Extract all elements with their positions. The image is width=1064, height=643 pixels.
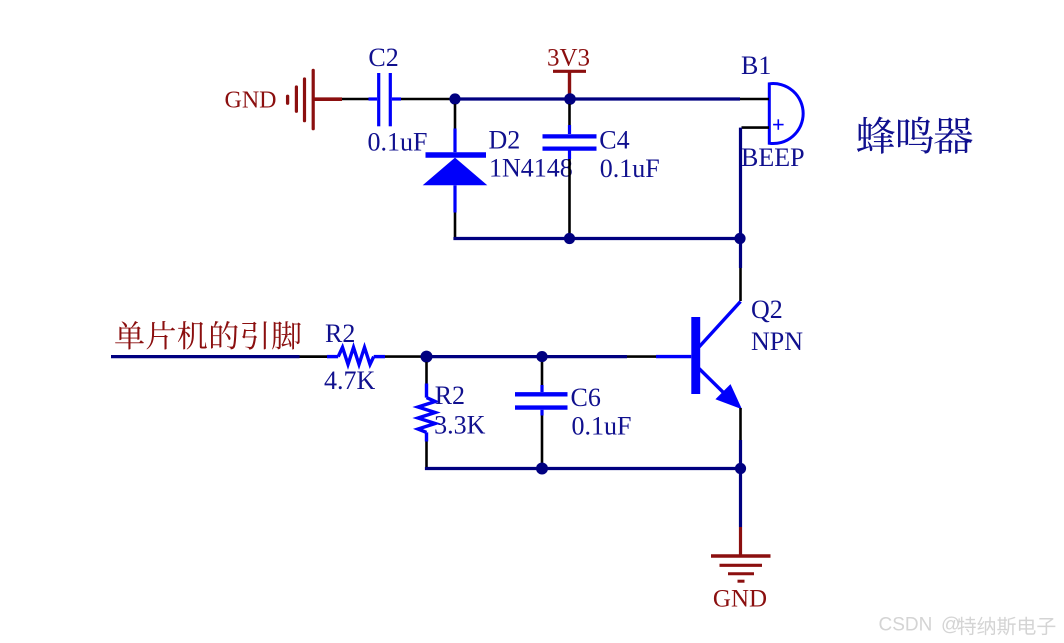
wire <box>401 98 450 101</box>
svg-text:3.3K: 3.3K <box>434 410 486 439</box>
resistor R2 3.3K <box>418 384 435 442</box>
svg-text:BEEP: BEEP <box>741 143 805 172</box>
svg-text:R2: R2 <box>325 319 355 348</box>
wire <box>568 104 571 125</box>
node junction (C6 top) <box>536 351 547 362</box>
wire base rail <box>111 355 300 358</box>
svg-text:Q2: Q2 <box>751 295 783 324</box>
wire mid rail <box>455 237 740 239</box>
wire <box>425 442 428 468</box>
svg-text:C6: C6 <box>571 383 601 412</box>
svg-text:3V3: 3V3 <box>547 45 590 72</box>
wire <box>425 362 428 384</box>
wire <box>739 268 742 301</box>
value 0.1uF (C6) <box>572 411 632 440</box>
svg-text:C2: C2 <box>368 43 398 72</box>
node junction (C4 bottom) <box>564 233 575 244</box>
ground GND (bottom) <box>711 556 771 613</box>
svg-text:GND: GND <box>713 586 767 613</box>
wire top rail <box>455 97 740 100</box>
label D2 <box>489 126 521 155</box>
text 蜂鸣器 (buzzer caption) <box>857 116 973 153</box>
text 单片机的引脚 (MCU pin label) <box>115 321 301 350</box>
wire to ground <box>739 469 742 528</box>
svg-text:0.1uF: 0.1uF <box>600 154 660 183</box>
svg-text:R2: R2 <box>435 381 465 410</box>
capacitor C2 <box>369 73 402 126</box>
svg-text:4.7K: 4.7K <box>324 366 376 395</box>
buzzer B1 <box>769 84 803 144</box>
label R2 (4.7K) <box>325 319 355 348</box>
ground GND (left power port) <box>225 70 343 128</box>
value 4.7K <box>324 366 376 395</box>
label R2 (3.3K) <box>435 381 465 410</box>
svg-text:CSDN: CSDN <box>879 615 933 636</box>
wire <box>454 104 457 129</box>
wire bottom rail <box>427 467 741 469</box>
svg-text:0.1uF: 0.1uF <box>368 128 428 157</box>
svg-text:C4: C4 <box>599 126 629 155</box>
transistor Q2 <box>691 302 742 410</box>
node junction (emitter/GND) <box>735 463 746 474</box>
node junction (collector rail) <box>734 233 745 244</box>
label B1 <box>741 51 771 80</box>
wire <box>739 408 742 440</box>
svg-text:NPN: NPN <box>751 327 803 356</box>
wire <box>427 355 628 358</box>
diode D2 <box>423 129 488 213</box>
svg-text:B1: B1 <box>741 51 771 80</box>
wire <box>739 440 742 469</box>
wire buzzer to collector <box>739 128 742 268</box>
wire <box>541 362 544 385</box>
value 1N4148 <box>489 154 573 183</box>
wire <box>385 355 421 358</box>
svg-text:D2: D2 <box>489 126 521 155</box>
label C2 <box>368 43 398 72</box>
power 3V3 <box>547 45 590 95</box>
value 0.1uF (C4) <box>600 154 660 183</box>
resistor R2 4.7K <box>327 347 385 364</box>
node junction (C2/D2) <box>449 93 460 104</box>
label NPN <box>751 327 803 356</box>
wire <box>454 213 457 238</box>
svg-text:@: @ <box>941 615 960 636</box>
svg-text:0.1uF: 0.1uF <box>572 411 632 440</box>
watermark CSDN @特纳斯电子 <box>879 615 1056 636</box>
label BEEP <box>741 143 805 172</box>
wire <box>300 355 328 358</box>
label C4 <box>599 126 629 155</box>
wire <box>568 159 571 237</box>
pin Q2 base <box>656 355 691 358</box>
wire <box>342 98 369 101</box>
value 3.3K <box>434 410 486 439</box>
node junction (base divider) <box>421 351 433 363</box>
wire <box>739 527 742 555</box>
label C6 <box>571 383 601 412</box>
capacitor C6 <box>515 385 568 416</box>
node junction (C6 bottom) <box>536 463 548 475</box>
pin B1 bottom <box>742 126 770 129</box>
wire <box>541 416 544 464</box>
svg-text:1N4148: 1N4148 <box>489 154 573 183</box>
svg-text:GND: GND <box>225 88 277 114</box>
wire <box>627 355 656 358</box>
label Q2 <box>751 295 783 324</box>
pin B1 top <box>740 98 769 101</box>
capacitor C4 <box>543 125 597 159</box>
node junction (3V3) <box>564 93 576 105</box>
value 0.1uF (C2) <box>368 128 428 157</box>
